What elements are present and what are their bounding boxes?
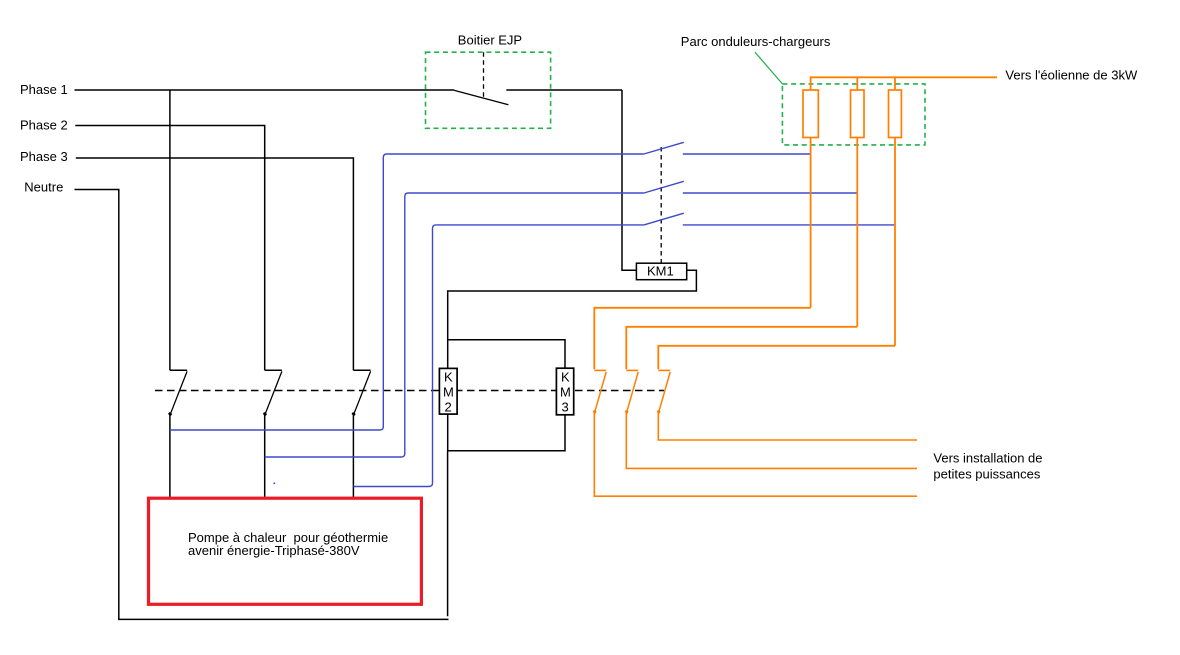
switch KM1 pole 1 blade <box>644 142 684 154</box>
svg-text:Phase 3: Phase 3 <box>20 149 68 164</box>
switch KM1 pole 3 blade <box>644 213 684 225</box>
contactor KM2 linkage dashed line <box>155 390 664 392</box>
svg-text:Vers l'éolienne de 3kW: Vers l'éolienne de 3kW <box>1005 68 1138 83</box>
wire Phase 1 drop to contactor pole 1 <box>169 90 171 370</box>
wire pole 1 to load <box>169 414 171 497</box>
Boitier EJP green dashed enclosure <box>426 52 551 128</box>
inverter park green dashed enclosure <box>782 84 925 145</box>
wire Phase 1 horizontal (left of EJP switch) <box>75 89 455 91</box>
KM1 actuator dashed link <box>660 147 662 263</box>
switch KM3 pole 3 <box>657 370 670 412</box>
wire Phase 1 drop to KM1 coil <box>622 90 636 270</box>
coil KM1 <box>636 263 686 280</box>
svg-text:3: 3 <box>562 400 569 415</box>
wire orange 1 to small power installation <box>594 412 917 496</box>
svg-text:K: K <box>561 370 570 385</box>
svg-text:M: M <box>560 385 571 400</box>
wire inverter 1 down lead <box>810 138 812 308</box>
contactor pole 1 switch <box>169 370 187 415</box>
wire orange 3 across to KM3 pole 3 <box>658 346 895 369</box>
wire branch to KM3 coil top <box>448 340 565 368</box>
coil KM3 <box>556 368 573 415</box>
wire Neutre down and along bottom to coil return <box>75 190 449 620</box>
wire orange 2 to small power installation <box>626 412 917 469</box>
inverter 3 top lead <box>894 77 896 90</box>
svg-text:avenir énergie-Triphasé-380V: avenir énergie-Triphasé-380V <box>188 543 360 558</box>
svg-text:2: 2 <box>445 400 452 415</box>
stray mark <box>274 483 276 485</box>
svg-text:Neutre: Neutre <box>24 180 63 195</box>
wire blue phase 3 via KM1 pole 3 <box>353 225 644 487</box>
wire inverter 2 down lead <box>856 138 858 327</box>
orange AC output bus to wind turbine <box>811 77 997 90</box>
switch KM3 pole 2 <box>625 370 638 412</box>
svg-text:Parc onduleurs-chargeurs: Parc onduleurs-chargeurs <box>681 34 831 49</box>
coil KM2 <box>439 368 457 414</box>
svg-text:Boitier EJP: Boitier EJP <box>458 32 522 47</box>
inverter-charger 3 <box>889 90 902 138</box>
wire blue phase 2 to inverter 2 <box>683 192 858 194</box>
wire inverter 3 down lead <box>894 138 896 346</box>
wire pole 3 to load <box>352 414 354 497</box>
leader line to inverter box <box>755 52 782 84</box>
switch KM1 pole 2 blade <box>644 181 684 193</box>
inverter 2 top lead <box>856 77 858 90</box>
switch KM3 pole 1 <box>593 370 606 412</box>
wire orange 2 across to KM3 pole 2 <box>626 327 857 369</box>
wire blue phase 2 via KM1 pole 2 <box>265 193 644 457</box>
wire blue phase 1 to inverter 1 <box>683 153 811 155</box>
wire KM2 bottom to KM3 bottom and neutral return <box>448 414 565 451</box>
svg-text:Phase 2: Phase 2 <box>20 117 68 132</box>
wire Phase 1 horizontal (right of EJP switch) <box>506 89 622 91</box>
wire Phase 3 horizontal <box>76 158 354 370</box>
wire KM1 coil to KM2/KM3 coils <box>448 270 697 368</box>
wire orange 3 to small power installation <box>658 412 917 440</box>
svg-text:KM1: KM1 <box>647 264 674 279</box>
wire blue phase 3 to inverter 3 <box>683 224 895 226</box>
EJP actuator dashed link <box>483 52 485 97</box>
contactor pole 3 switch <box>352 370 370 415</box>
svg-text:petites puissances: petites puissances <box>933 467 1040 482</box>
heat pump load red box <box>149 498 422 604</box>
svg-text:K: K <box>444 370 453 385</box>
inverter-charger 2 <box>851 90 865 138</box>
wire pole 2 to load <box>264 414 266 497</box>
wire Phase 2 horizontal <box>75 126 264 371</box>
contactor pole 2 switch <box>264 370 282 415</box>
inverter-charger 1 <box>803 90 818 138</box>
wire coil return drop <box>447 451 449 617</box>
svg-text:Phase 1: Phase 1 <box>20 82 68 97</box>
wire blue phase 1 via KM1 pole 1 <box>170 154 644 430</box>
wire orange 1 across to KM3 pole 1 <box>594 308 810 369</box>
svg-text:M: M <box>443 385 454 400</box>
switch EJP blade <box>454 90 508 104</box>
svg-text:Vers installation de: Vers installation de <box>933 451 1042 466</box>
